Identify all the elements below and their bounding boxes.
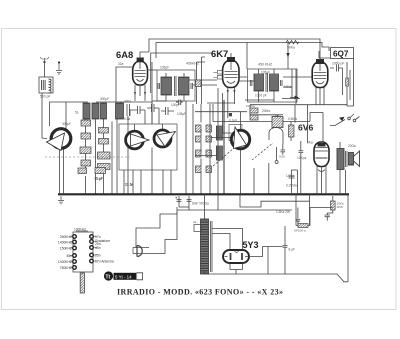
wire 6A8 grid left (116, 67, 132, 102)
output transformer (337, 142, 356, 194)
resistor column mid-right B (206, 125, 212, 173)
resistor boxes 100Ka (246, 104, 258, 120)
capacitor on line y102 (176, 100, 186, 117)
wire antenna down to gang arrow (42, 93, 47, 139)
main ground bus (58, 193, 349, 195)
wire lower bus (177, 209, 292, 211)
svg-text:45n: 45n (66, 254, 72, 258)
coupling capacitor 10Kpa (297, 141, 306, 161)
svg-text:21.5n: 21.5n (125, 183, 134, 187)
shield box osc left (50, 102, 89, 126)
resistor 50Ka (286, 40, 299, 44)
phone jack switch (330, 114, 360, 126)
svg-text:1400KHZ: 1400KHZ (58, 260, 72, 264)
tuning gang section C3 (154, 130, 176, 147)
resistor column right of 6Q7 (346, 62, 351, 106)
power transformer (193, 194, 212, 274)
wire bold vertical x224 (223, 100, 225, 194)
svg-text:6K7: 6K7 (211, 48, 228, 59)
dashed link left (45, 156, 130, 158)
switch labels left (58, 235, 72, 270)
wires mid-right verticals (186, 88, 241, 194)
wire bus to IFT2 (246, 43, 248, 70)
switch contact stubs (70, 237, 97, 268)
ground terminal top-left (56, 61, 62, 74)
svg-text:4a: 4a (296, 219, 300, 223)
wire verticals above bus mid (254, 163, 269, 194)
wire y137 (195, 138, 231, 156)
wire top grid bus outer (149, 39, 320, 59)
svg-text:32a: 32a (118, 62, 124, 66)
svg-text:IRRADIO - MODD. «623 FONO» - -: IRRADIO - MODD. «623 FONO» - - «X 23» (117, 288, 283, 297)
capacitor 1000pF at 6Q7 (330, 62, 344, 96)
speaker (349, 151, 360, 167)
wire AVC drop (287, 43, 289, 70)
filter capacitors 8mF (175, 196, 209, 207)
svg-text:25n: 25n (95, 254, 101, 258)
wire stage box line (151, 53, 213, 93)
svg-text:10Kpa: 10Kpa (297, 156, 306, 160)
switch contacts left (73, 235, 77, 270)
antenna terminal (40, 57, 49, 63)
svg-text:1000 pF: 1000 pF (255, 94, 267, 98)
capacitor small right (296, 208, 301, 226)
wire 6Q7 pins down (250, 97, 347, 123)
svg-text:25 μF: 25 μF (95, 177, 103, 181)
trimmer capacitors row above gang (124, 102, 180, 124)
tube 6K7 (211, 48, 239, 94)
tube 6A8 (116, 49, 148, 101)
wire 6V6 pins down (301, 118, 330, 195)
wires below shield box (124, 148, 171, 195)
svg-text:UF100 a: UF100 a (294, 229, 306, 233)
phono pickup (133, 246, 149, 257)
badge logo (104, 271, 143, 280)
svg-text:105μF: 105μF (160, 66, 169, 70)
svg-text:20Ωa: 20Ωa (348, 144, 356, 148)
svg-text:1.5Ka 2W: 1.5Ka 2W (276, 210, 290, 214)
shield box C4 (229, 125, 242, 141)
wires oscillator verticals (66, 102, 128, 195)
wire phono staircase (136, 207, 189, 254)
svg-text:300μF: 300μF (62, 122, 71, 126)
oscillator coils top row (62, 100, 131, 127)
svg-text:8mF 500Ωa: 8mF 500Ωa (192, 202, 209, 206)
svg-text:105μF: 105μF (177, 112, 186, 116)
wire box tops row (96, 101, 152, 103)
capacitor 8uF (268, 226, 295, 274)
components above bus left (78, 168, 106, 182)
svg-text:1/2Ka: 1/2Ka (286, 174, 295, 178)
svg-text:0.25Ma: 0.25Ma (286, 184, 297, 188)
svg-text:500 pF: 500 pF (40, 95, 51, 99)
svg-text:6Q7: 6Q7 (333, 50, 349, 59)
svg-text:300a: 300a (124, 100, 131, 104)
svg-text:45n: 45n (95, 246, 101, 250)
wire top grid bus inner (156, 43, 329, 59)
svg-text:5 Yt - 14: 5 Yt - 14 (115, 274, 132, 279)
band switch assembly (73, 228, 93, 273)
svg-text:0.1μF: 0.1μF (229, 119, 237, 123)
svg-text:2a: 2a (193, 220, 197, 224)
svg-text:300μF: 300μF (100, 97, 109, 101)
tube 6Q7 (312, 48, 353, 107)
junction dots on bus (92, 193, 349, 195)
svg-text:0.5a: 0.5a (124, 117, 130, 121)
svg-text:5L: 5L (75, 111, 79, 115)
antenna coil L1 (39, 62, 53, 99)
tube 6V6 (298, 123, 329, 175)
dashed gang link (252, 143, 273, 160)
shield box around C2 C3 (119, 124, 177, 170)
wire bus to lower line (217, 194, 219, 210)
svg-text:17n Antenna: 17n Antenna (95, 260, 114, 264)
coil windings mid (216, 126, 222, 160)
ground cap near pot (279, 144, 285, 159)
tube 5Y3 rectifier (223, 240, 259, 263)
svg-text:1400KHZ: 1400KHZ (58, 241, 72, 245)
resistor column osc left (80, 120, 91, 166)
resistor 0.5Ma vertical (289, 125, 295, 137)
wire IFT2 to 6Q7 (283, 77, 312, 104)
switch contacts right (90, 235, 94, 263)
svg-text:Tt: Tt (106, 275, 111, 281)
detector diode arrow (290, 69, 299, 99)
wires under gang C1 (60, 146, 64, 194)
svg-text:250KHZ: 250KHZ (60, 235, 72, 239)
wire 6A8 plate to IFT1 (147, 39, 157, 124)
svg-text:8 μF: 8 μF (289, 248, 295, 252)
small box 229 (229, 113, 232, 116)
wire 6K7 cap link (230, 53, 232, 57)
wire 5Y3 plates (212, 229, 283, 275)
wire IFT1 to 6K7 (152, 80, 217, 101)
resistor column osc mid (94, 128, 110, 181)
tuning gang section C1 (47, 129, 71, 151)
svg-text:150KHZ: 150KHZ (60, 247, 72, 251)
svg-text:450 KHZ: 450 KHZ (258, 63, 273, 67)
wire 6K7 plate to IFT2 (239, 74, 254, 81)
IF transformer T1 (157, 66, 195, 102)
svg-text:1PW: 1PW (337, 205, 344, 209)
switch labels right (95, 235, 114, 264)
svg-text:0.5Ma: 0.5Ma (288, 117, 297, 121)
wire 6K7 grid left (197, 57, 206, 104)
volume potentiometer (250, 105, 283, 164)
ground symbol at bus end (58, 193, 64, 203)
wire bottom loop (205, 194, 349, 281)
resistor column mid-right A (196, 119, 238, 173)
svg-text:20Ma: 20Ma (262, 109, 270, 113)
svg-text:750KHZ: 750KHZ (60, 266, 72, 270)
tuning gang section C2 (126, 131, 149, 149)
IF transformer T2 (248, 69, 298, 102)
capacitors above bus right (289, 170, 298, 194)
svg-text:6V6: 6V6 (298, 123, 314, 133)
wire heater step lines (240, 194, 310, 207)
choke resistor 10Ka (325, 196, 344, 221)
tuning gang section C4 (231, 127, 249, 149)
switch shaft (80, 273, 84, 293)
wire heater segments (207, 99, 300, 104)
wires under gang C2 C3 (135, 124, 163, 132)
wire 6A8 cap link (140, 52, 149, 58)
resistor 4a horizontal (294, 194, 333, 232)
svg-text:100Ka: 100Ka (246, 104, 255, 108)
svg-text:0.05: 0.05 (279, 155, 285, 159)
wire y112 (195, 111, 247, 113)
resistor box 6K7 grid (196, 80, 202, 87)
svg-text:6A8: 6A8 (116, 49, 133, 60)
AVC line (213, 104, 323, 142)
svg-text:5Y3: 5Y3 (243, 240, 259, 250)
